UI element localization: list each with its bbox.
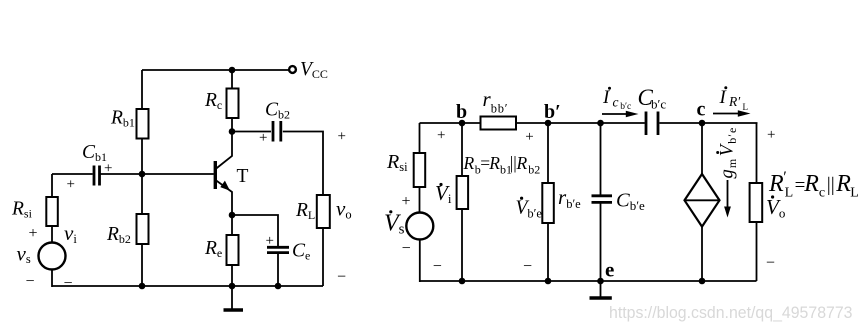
node R_b2 bottom xyxy=(139,283,146,290)
wire top rail b to C_bc xyxy=(516,122,645,124)
transistor T base bar xyxy=(214,161,217,189)
wire emitter to C_e branch xyxy=(232,215,278,246)
wire base xyxy=(101,173,214,175)
svg-text:+: + xyxy=(266,233,274,249)
wire b branch xyxy=(461,123,463,177)
arrow g_m current down xyxy=(727,180,729,208)
resistor r_be xyxy=(542,183,554,223)
resistor R_L xyxy=(317,195,330,228)
wire R_si to V_s xyxy=(419,187,421,213)
svg-text:+: + xyxy=(104,161,112,177)
wire R_L bottom xyxy=(322,228,324,286)
capacitor C_b1 xyxy=(93,166,96,186)
wire R_b1 branch top xyxy=(141,70,143,110)
wire bottom rail right circuit xyxy=(420,280,757,282)
resistor R_e xyxy=(227,235,239,265)
node base junction xyxy=(139,171,146,178)
wire C_be bottom xyxy=(600,202,602,281)
capacitor C_be xyxy=(592,194,613,197)
label g_m V_be rotated xyxy=(716,127,739,179)
svg-text:−: − xyxy=(64,275,73,292)
transistor T emitter arrowhead xyxy=(220,181,230,191)
svg-text:https://blog.csdn.net/qq_49578: https://blog.csdn.net/qq_49578773 xyxy=(609,304,853,322)
resistor R_b2 xyxy=(137,214,149,244)
node b prime bottom xyxy=(545,278,552,285)
wire left branch upper xyxy=(51,174,53,198)
wire left branch top xyxy=(419,123,421,154)
resistor R_si right xyxy=(414,153,426,187)
wire source to bottom xyxy=(51,270,53,288)
wire C_be branch top xyxy=(600,123,602,195)
svg-text:+: + xyxy=(29,225,38,242)
svg-text:b′: b′ xyxy=(544,101,561,123)
wire r_be bottom xyxy=(547,223,549,281)
node R_e bottom xyxy=(229,283,236,290)
capacitor C_e xyxy=(267,246,289,249)
node emitter xyxy=(229,212,236,219)
svg-text:T: T xyxy=(237,166,249,187)
svg-text:b′c: b′c xyxy=(620,102,631,112)
wire top rail C_bc to right xyxy=(660,122,758,124)
resistor R_c xyxy=(227,89,239,119)
svg-text:+: + xyxy=(259,130,267,146)
wire top rail left of r_bb xyxy=(420,122,482,124)
wire R_c branch top xyxy=(231,70,233,89)
wire bottom rail xyxy=(52,285,323,287)
dependent source middle line xyxy=(685,199,720,201)
resistor R_si xyxy=(46,197,58,226)
terminal VCC open circle xyxy=(289,66,296,73)
wire R_b2 branch bottom xyxy=(141,244,143,286)
svg-text:−: − xyxy=(26,273,35,290)
resistor R_b xyxy=(457,176,469,209)
dependent source g_m V_be diamond xyxy=(685,174,720,227)
svg-text:+: + xyxy=(338,129,346,145)
wire R_si to source xyxy=(51,226,53,243)
node b prime xyxy=(545,120,552,127)
svg-text:+: + xyxy=(67,177,75,193)
wire input left to C_b1 xyxy=(52,173,93,175)
wire R_e branch bottom xyxy=(231,265,233,286)
wire C_e bottom xyxy=(277,253,279,286)
wire R_b bottom xyxy=(461,209,463,281)
source V_s circle xyxy=(406,213,433,240)
node e xyxy=(597,278,604,285)
svg-text:−: − xyxy=(402,240,411,257)
svg-text:R′L=Rc||RL: R′L=Rc||RL xyxy=(768,169,859,201)
node C_be top xyxy=(597,120,604,127)
svg-text:−: − xyxy=(433,258,442,275)
node b xyxy=(459,120,466,127)
svg-text:e: e xyxy=(605,258,614,282)
node source bottom xyxy=(699,278,706,285)
wire V_s to bottom xyxy=(419,240,421,283)
node collector junction xyxy=(229,128,236,135)
node c xyxy=(699,120,706,127)
wire current source branch bottom xyxy=(701,227,703,281)
svg-text:L: L xyxy=(743,102,749,112)
transistor T emitter line xyxy=(216,181,232,216)
wire current source branch top xyxy=(701,123,703,175)
svg-text:−: − xyxy=(766,255,775,272)
svg-text:b′c: b′c xyxy=(651,97,666,112)
arrow I_Cbc xyxy=(602,113,627,115)
svg-text:−: − xyxy=(523,258,532,275)
wire collector to C_b2 xyxy=(232,131,271,133)
svg-text:b: b xyxy=(456,101,467,123)
svg-text:−: − xyxy=(337,269,346,286)
arrow I_RL xyxy=(713,113,739,115)
svg-text:+: + xyxy=(402,193,411,210)
wire R_b1 branch bottom xyxy=(141,139,143,175)
wire R_e branch top xyxy=(231,215,233,236)
wire C_b2 to output branch xyxy=(283,132,323,196)
resistor r_bb xyxy=(481,117,517,130)
wire R_b2 branch top xyxy=(141,174,143,215)
transistor T collector line xyxy=(216,133,232,169)
wire right branch top xyxy=(756,123,758,184)
svg-text:c: c xyxy=(613,95,619,110)
resistor R_b1 xyxy=(137,109,149,139)
svg-text:c: c xyxy=(697,99,706,121)
resistor R_L prime xyxy=(750,183,763,222)
wire R_L prime bottom xyxy=(756,222,758,281)
svg-text:+: + xyxy=(437,127,445,143)
node b bottom xyxy=(459,278,466,285)
wire b prime branch top xyxy=(547,123,549,184)
source v_s circle xyxy=(39,243,66,270)
wire top rail xyxy=(142,69,289,71)
ground left xyxy=(231,286,233,309)
ground right xyxy=(600,281,602,297)
capacitor C_bc xyxy=(645,112,648,136)
wire R_c branch bottom xyxy=(231,118,233,133)
node C_e bottom xyxy=(275,283,282,290)
node collector top rail xyxy=(229,67,236,74)
svg-text:+: + xyxy=(767,127,775,143)
svg-text:R′: R′ xyxy=(728,94,741,109)
svg-text:+: + xyxy=(525,129,533,145)
capacitor C_b2 xyxy=(272,121,275,142)
